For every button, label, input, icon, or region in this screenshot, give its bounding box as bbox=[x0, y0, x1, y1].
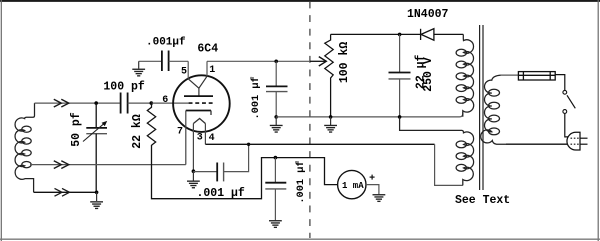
transformer core bbox=[480, 25, 483, 190]
svg-text:250 V: 250 V bbox=[422, 57, 435, 92]
wire: tank top rail bbox=[35, 102, 120, 104]
wire primary bottom to plug bbox=[506, 143, 568, 145]
ground tank bbox=[90, 202, 103, 209]
ground plate bypass bbox=[270, 125, 283, 132]
ground meter bypass bbox=[269, 221, 282, 228]
svg-text:4: 4 bbox=[209, 133, 215, 144]
node B- rail left bbox=[274, 115, 278, 119]
variable capacitor C1 50 pf bbox=[86, 128, 107, 134]
svg-text:.001 µf: .001 µf bbox=[197, 187, 245, 200]
svg-text:1 mA: 1 mA bbox=[342, 181, 364, 191]
wire: R1 bottom to meter line bbox=[152, 145, 338, 199]
wire cap to heater line bbox=[224, 144, 249, 171]
svg-text:22 kΩ: 22 kΩ bbox=[131, 114, 144, 149]
wire: coil tap to cathode bbox=[30, 164, 186, 166]
wire heater line to transformer bbox=[205, 143, 434, 145]
wire meter right to ground bbox=[366, 185, 379, 195]
meter M1 1 mA bbox=[338, 170, 366, 198]
svg-text:7: 7 bbox=[177, 127, 183, 138]
fuse F1 bbox=[501, 74, 519, 76]
node: tank bottom junction bbox=[95, 191, 99, 195]
svg-text:1: 1 bbox=[209, 65, 215, 76]
AC plug P1 bbox=[567, 132, 580, 150]
node: junction tank top / C1 bbox=[94, 101, 98, 105]
wire: 50pf branch lower bbox=[95, 134, 97, 193]
dashed separator line bbox=[309, 2, 311, 239]
border frame bbox=[0, 0, 600, 2]
wire fuse to switch bbox=[555, 75, 565, 91]
resistor R1 22 kOhm bbox=[147, 103, 155, 145]
svg-text:6C4: 6C4 bbox=[197, 43, 218, 56]
cathode pin 7 wire bbox=[185, 111, 187, 165]
wire pin3 to heater bypass cap bbox=[193, 171, 217, 173]
potentiometer R2 100k bbox=[325, 34, 333, 117]
plug-in connector chevrons bottom bbox=[55, 188, 70, 196]
node 22uf junction bbox=[398, 33, 402, 37]
filament secondary winding bbox=[400, 117, 474, 185]
pin 4 lead bbox=[204, 124, 206, 145]
cathode bar bbox=[186, 110, 211, 112]
ground pin3 bbox=[187, 181, 200, 188]
node pin3 junction bbox=[192, 169, 196, 173]
plug-in connector chevrons middle bbox=[54, 161, 69, 169]
wire B+ top rail bbox=[331, 33, 421, 35]
grid dashes bbox=[189, 102, 214, 104]
plus sign bbox=[370, 175, 375, 180]
node pot bottom bbox=[329, 115, 333, 119]
plate bar bbox=[184, 95, 213, 97]
svg-text:3: 3 bbox=[197, 132, 203, 143]
node heater line junction bbox=[247, 143, 250, 146]
ground meter bbox=[373, 195, 386, 202]
wire: 100pf to grid node bbox=[128, 102, 152, 104]
svg-text:100 pf: 100 pf bbox=[103, 81, 145, 94]
plate V connection bbox=[188, 76, 207, 96]
svg-text:.001 µf: .001 µf bbox=[250, 76, 262, 119]
capacitor C6 22 uf 250 V bbox=[399, 34, 401, 72]
capacitor C4 .001 uf heater bypass bbox=[217, 163, 223, 182]
node 22uf bottom bbox=[398, 115, 402, 119]
wire stub to ground bbox=[96, 192, 98, 201]
pin 3 lead down bbox=[192, 124, 194, 172]
wire: tank bottom rail bbox=[34, 191, 97, 193]
svg-text:6: 6 bbox=[162, 95, 168, 106]
capacitor C7 .001 uf meter bypass bbox=[274, 158, 276, 183]
capacitor C2 100 pf bbox=[121, 93, 128, 114]
inductor L1 tank coil bbox=[15, 103, 34, 192]
pin 5 lead bbox=[187, 61, 189, 79]
svg-text:See Text: See Text bbox=[455, 194, 510, 207]
wire plate line bbox=[207, 60, 310, 62]
plug-in connector chevrons top bbox=[54, 99, 69, 107]
node meter bypass junction bbox=[274, 156, 278, 160]
svg-text:.001 µf: .001 µf bbox=[295, 160, 307, 203]
node: grid junction bbox=[150, 101, 154, 105]
HV secondary winding bbox=[456, 34, 474, 116]
node plate bypass junction bbox=[274, 60, 278, 64]
pin 1 lead bbox=[206, 61, 208, 76]
wire B- rail bbox=[276, 112, 463, 117]
ground pot bbox=[324, 125, 337, 132]
svg-text:50 pf: 50 pf bbox=[70, 112, 83, 147]
wire + ground for grid cap bbox=[138, 61, 140, 68]
switch S1 bbox=[563, 90, 567, 94]
wire: grid lead into tube bbox=[151, 102, 188, 104]
svg-text:5: 5 bbox=[181, 66, 187, 77]
wire switch to plug bbox=[565, 114, 568, 137]
wire: 50pf branch upper bbox=[95, 103, 97, 128]
svg-text:1N4007: 1N4007 bbox=[407, 8, 449, 21]
capacitor C5 .001 uf plate bypass bbox=[275, 61, 277, 86]
heater filament symbol bbox=[193, 119, 205, 124]
svg-text:.001µf: .001µf bbox=[146, 36, 186, 48]
primary winding bbox=[481, 75, 506, 144]
svg-text:100 kΩ: 100 kΩ bbox=[338, 42, 351, 84]
